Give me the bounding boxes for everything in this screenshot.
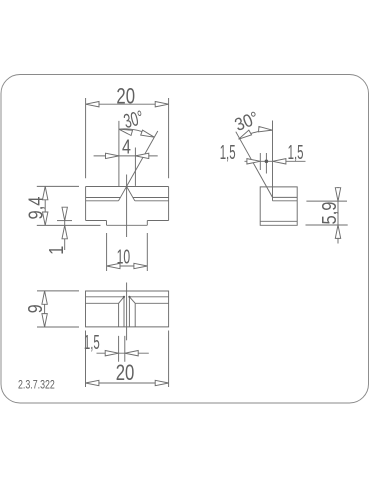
dimension 1,5 bottom: extension lines — [119, 336, 125, 362]
dimension 4: extension lines — [119, 121, 135, 186]
side view slot step vertical edge — [272, 197, 274, 200]
svg-text:9: 9 — [25, 304, 47, 313]
bottom view slot edge verticals — [124, 297, 129, 327]
front view V-wedge right flank — [127, 187, 135, 201]
svg-text:30°: 30° — [232, 107, 262, 135]
dimension 30deg side: left arrowhead at flank — [237, 130, 251, 141]
dimension 9.4: top arrowhead — [43, 186, 48, 199]
dimension 30deg front: right arrowhead — [141, 130, 155, 140]
svg-text:10: 10 — [117, 246, 130, 268]
dimension 9.4: dimension line — [44, 186, 46, 225]
bottom view band end dots — [123, 296, 125, 298]
side view slot step lower line — [273, 200, 298, 202]
svg-text:9,4: 9,4 — [26, 197, 48, 220]
dimension 4: right arrowhead (outside) — [135, 153, 148, 158]
dimension 20 bottom: left arrowhead — [86, 380, 99, 385]
dimension 1,5 1,5 side: extension lines — [260, 153, 266, 174]
dimension 1 step: dimension line vertical — [64, 208, 66, 250]
dimension 20 top: right arrowhead — [155, 102, 168, 107]
side view slot step upper line — [273, 196, 298, 198]
svg-text:20: 20 — [116, 360, 135, 385]
svg-text:1,5: 1,5 — [220, 142, 236, 164]
side view chamfer flank diagonal — [236, 132, 273, 198]
dimension 20 top: extension lines — [86, 98, 169, 178]
front view body outline — [86, 187, 169, 226]
dimension 1 step: upper arrowhead pointing down — [62, 207, 67, 220]
dimension 4: left arrowhead (outside) — [106, 153, 119, 158]
dimension 20 top: left arrowhead — [86, 102, 99, 107]
dimension 1,5 bottom: left arrowhead — [105, 351, 118, 356]
side view bottom band line — [260, 220, 297, 222]
dimension 30deg side: arc — [239, 130, 273, 139]
svg-text:1,5: 1,5 — [84, 332, 100, 354]
svg-text:30°: 30° — [122, 107, 146, 133]
svg-text:1: 1 — [46, 246, 68, 255]
dimension 20 top: dimension line — [86, 103, 169, 105]
dimension 5,9: extension lines — [306, 201, 348, 225]
dimension 30deg front: arc — [119, 129, 154, 137]
dimension 1,5 1,5 side: shared dot — [265, 160, 269, 164]
dimension 20 bottom: dimension line — [86, 382, 169, 384]
dimension 1,5 bottom: dimension line — [97, 352, 149, 354]
bottom view band upper line — [86, 296, 169, 298]
front view V-wedge left flank extended for angle dim — [119, 131, 158, 201]
front view groove band lower line — [86, 200, 169, 202]
side view body outline — [260, 187, 297, 225]
dimension 1,5 bottom: right arrowhead — [125, 351, 138, 356]
front view vertical centerline — [126, 175, 128, 238]
dimension 10: right arrowhead — [134, 263, 147, 268]
dimension 9.4: extension lines — [37, 186, 101, 225]
dimension 10: left arrowhead — [107, 263, 120, 268]
svg-text:20: 20 — [116, 83, 135, 108]
dimension 9.4: bottom arrowhead — [43, 212, 48, 225]
dimension 5,9: bottom arrowhead pointing up — [335, 225, 340, 238]
side view slot centerline — [272, 121, 274, 198]
dimension 9: bottom arrowhead — [42, 314, 47, 327]
bottom view chamfer diagonal left — [119, 297, 124, 304]
dimension 20 bottom: extension lines — [86, 331, 169, 388]
dimension 1 step: lower arrowhead pointing up — [62, 225, 67, 238]
front view groove band upper line — [86, 197, 169, 199]
dimension 5,9: top arrowhead pointing down — [335, 188, 340, 201]
dimension 30deg front: left arrowhead — [118, 127, 132, 136]
dimension 9: dimension line — [44, 291, 46, 327]
dimension 9: top arrowhead — [42, 291, 47, 304]
bottom view chamfer diagonal right — [129, 297, 135, 304]
dimension 9: extension lines — [37, 291, 79, 327]
dimension 4: dimension line with tails — [94, 155, 158, 157]
dimension 5,9: dimension line — [337, 187, 339, 244]
bottom view centerline — [126, 283, 128, 341]
svg-text:5,9: 5,9 — [319, 202, 341, 225]
dimension 1,5 1,5 side: left arrowhead — [247, 159, 260, 164]
svg-text:4: 4 — [122, 137, 131, 159]
dimension 30deg side: arrowhead at centerline — [259, 126, 273, 132]
bottom view body outline — [86, 291, 169, 327]
bottom view chamfer corner verticals — [119, 303, 136, 327]
dimension 20 bottom: right arrowhead — [155, 380, 168, 385]
dimension 10: extension lines — [107, 233, 148, 271]
dimension 1,5 1,5 side: right arrowhead — [273, 159, 286, 164]
dimension 1 step: extension line short — [57, 220, 72, 222]
border rounded frame — [1, 75, 369, 404]
bottom view band lower line — [86, 302, 169, 304]
svg-text:1,5: 1,5 — [288, 142, 304, 164]
svg-text:2.3.7.322: 2.3.7.322 — [18, 378, 55, 392]
dimension 1,5 1,5 side: dimension line — [245, 160, 306, 162]
dimension 10: dimension line — [107, 265, 148, 267]
